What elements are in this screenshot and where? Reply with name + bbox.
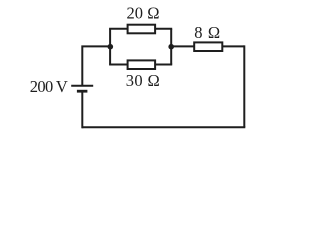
resistor R1 20 ohm box <box>128 25 156 34</box>
resistor R2 30 ohm box <box>128 60 156 69</box>
wire battery negative lead down <box>81 92 83 128</box>
wire node B to 8 ohm resistor <box>171 45 194 47</box>
node A junction dot <box>108 44 114 50</box>
svg-text:200 V: 200 V <box>30 77 68 96</box>
node B junction dot <box>168 44 174 50</box>
wire bottom branch left segment <box>109 64 127 66</box>
battery V1 long positive plate <box>71 85 93 87</box>
wire right side vertical <box>243 45 245 127</box>
wire 8 ohm resistor to top-right corner <box>223 45 244 47</box>
svg-text:20 Ω: 20 Ω <box>127 4 160 23</box>
wire bottom return <box>82 126 245 128</box>
wire left rail of parallel section <box>109 29 111 65</box>
svg-text:8 Ω: 8 Ω <box>194 23 220 42</box>
wire top branch left segment <box>109 28 127 30</box>
resistor R3 8 ohm box <box>194 42 222 51</box>
wire right rail of parallel section <box>170 29 172 65</box>
wire battery positive lead up and right to node A <box>82 46 110 85</box>
svg-text:30 Ω: 30 Ω <box>126 71 160 90</box>
wire top branch right segment <box>156 28 173 30</box>
wire bottom branch right segment <box>156 64 173 66</box>
battery V1 short negative plate <box>77 90 88 93</box>
